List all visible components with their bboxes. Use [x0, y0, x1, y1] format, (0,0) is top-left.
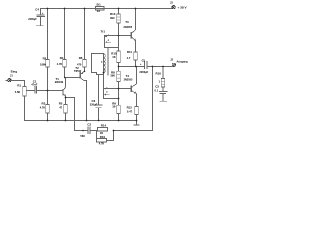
svg-text:0.1: 0.1: [155, 88, 159, 92]
svg-text:+: +: [42, 11, 44, 15]
svg-text:1: 1: [159, 80, 161, 84]
svg-text:Eing: Eing: [11, 70, 18, 74]
svg-text:z: z: [101, 60, 103, 64]
svg-text:R6: R6: [79, 56, 83, 60]
svg-text:TIP32: TIP32: [74, 69, 82, 73]
svg-text:T4: T4: [126, 74, 130, 78]
svg-text:+: +: [140, 62, 142, 66]
svg-text:J3: J3: [170, 1, 173, 4]
svg-text:2N3055: 2N3055: [124, 79, 133, 82]
svg-text:47: 47: [59, 105, 62, 109]
svg-text:R5: R5: [59, 101, 63, 105]
svg-text:R16: R16: [156, 72, 162, 76]
svg-text:C6: C6: [92, 99, 96, 103]
svg-text:39: 39: [112, 104, 115, 108]
svg-text:2200µF: 2200µF: [28, 18, 37, 21]
svg-text:J2: J2: [170, 58, 173, 61]
svg-text:2N3055: 2N3055: [123, 26, 132, 29]
svg-text:R15: R15: [111, 51, 117, 55]
svg-text:+ 38 V: + 38 V: [178, 5, 188, 9]
svg-text:R13: R13: [110, 12, 116, 16]
svg-text:180K: 180K: [40, 62, 46, 66]
svg-text:C5: C5: [142, 59, 146, 63]
svg-text:2200µF: 2200µF: [139, 70, 148, 74]
svg-text:R1: R1: [17, 83, 21, 87]
svg-text:R3: R3: [42, 102, 46, 106]
svg-text:T3: T3: [125, 20, 129, 24]
svg-text:Si1: Si1: [96, 2, 101, 6]
svg-text:z: z: [106, 91, 108, 94]
svg-text:Tr1: Tr1: [101, 30, 106, 34]
svg-text:560: 560: [80, 134, 85, 138]
svg-text:R12: R12: [127, 106, 133, 110]
svg-text:390: 390: [110, 73, 115, 77]
svg-text:220µF: 220µF: [90, 103, 98, 107]
svg-text:0.47: 0.47: [127, 109, 133, 113]
svg-text:C4: C4: [35, 8, 39, 12]
svg-text:47nF: 47nF: [31, 83, 37, 87]
svg-text:R14: R14: [101, 124, 107, 128]
svg-text:R4: R4: [60, 56, 64, 60]
svg-text:5.6K: 5.6K: [15, 90, 21, 94]
svg-text:390: 390: [110, 16, 115, 20]
svg-text:4.7: 4.7: [127, 56, 131, 60]
svg-text:4.7K: 4.7K: [99, 141, 105, 145]
svg-text:z: z: [108, 39, 110, 42]
svg-text:R11: R11: [127, 50, 133, 54]
svg-text:R10: R10: [100, 135, 106, 139]
svg-text:C2: C2: [87, 123, 91, 127]
svg-text:BD139: BD139: [55, 80, 64, 84]
svg-text:Ausgang: Ausgang: [177, 60, 189, 64]
svg-text:R2: R2: [43, 56, 47, 60]
svg-text:J1: J1: [10, 73, 13, 77]
svg-text:C3: C3: [155, 84, 159, 88]
svg-text:1K: 1K: [112, 55, 115, 59]
svg-text:4.7K: 4.7K: [57, 62, 63, 66]
svg-text:2A: 2A: [97, 9, 100, 13]
svg-text:4.7K: 4.7K: [40, 106, 46, 110]
